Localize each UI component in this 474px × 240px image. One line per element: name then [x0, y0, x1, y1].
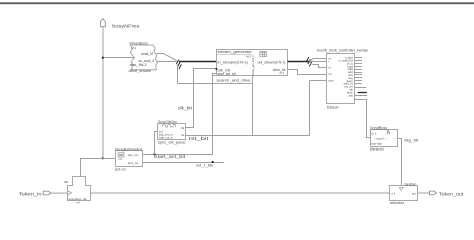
port busyNFree	[101, 19, 106, 27]
wire driver branch horizontal	[178, 83, 253, 85]
block releaser (Seqfac)	[390, 186, 418, 201]
svg-text:s.d: s.d	[118, 157, 122, 161]
svg-text:rst: rst	[181, 133, 184, 137]
svg-text:out_stream(0:N-1): out_stream(0:N-1)	[258, 61, 286, 65]
svg-text:M:1: M:1	[132, 46, 137, 50]
booth right pin stubs	[355, 58, 368, 96]
svg-text:M:1: M:1	[280, 71, 285, 75]
booth left pin labels	[328, 56, 334, 82]
svg-text:Btrack: Btrack	[327, 105, 339, 109]
svg-text:RE: RE	[64, 180, 68, 184]
wire rst_bit horizontal	[186, 135, 310, 137]
wire clk_bit	[186, 69, 217, 128]
svg-text:Token_out: Token_out	[439, 192, 465, 197]
block stream_generator	[217, 50, 288, 76]
wire vertical to rst net	[252, 84, 254, 136]
svg-text:Start_act_bit: Start_act_bit	[154, 154, 187, 159]
svg-text:sum: sum	[328, 79, 334, 83]
wire busy to SeqActivator	[103, 158, 116, 160]
icon clock triangle	[399, 187, 403, 190]
bus stub dash	[358, 92, 367, 94]
svg-text:M:1: M:1	[246, 55, 251, 59]
svg-text:clk: clk	[181, 126, 185, 130]
block SeqActivator	[116, 151, 143, 167]
wire start_act_bit	[143, 74, 217, 155]
svg-text:high_cnt_m: high_cnt_m	[159, 135, 174, 139]
wire act_1	[143, 162, 225, 164]
junction dot start_act	[153, 153, 155, 155]
svg-text:a 1: a 1	[391, 192, 395, 196]
icon table	[260, 51, 267, 57]
svg-text:in_stream(0:N-1): in_stream(0:N-1)	[218, 60, 249, 64]
junction dot busy/driver	[102, 57, 104, 59]
wire rst_bit stub to booth	[310, 80, 327, 82]
svg-text:act: act	[412, 192, 416, 196]
svg-text:act_1_Me: act_1_Me	[196, 163, 214, 168]
wire Driver out1 to rip	[157, 54, 177, 61]
port Token_out	[429, 191, 436, 195]
svg-text:→cycl→: →cycl→	[372, 136, 388, 140]
wire trig_bit	[398, 139, 402, 186]
svg-text:Seqfac: Seqfac	[404, 181, 416, 186]
svg-text:act_re: act_re	[128, 161, 139, 165]
svg-text:avail_M: avail_M	[141, 52, 153, 56]
wire rip branch 2	[310, 61, 326, 63]
wire FF to releaser	[91, 192, 390, 194]
title underline	[217, 54, 253, 56]
svg-text:SyncClkGen: SyncClkGen	[158, 120, 177, 124]
svg-text:act_on: act_on	[128, 153, 139, 157]
wire Driver out2 to rip	[157, 61, 177, 63]
svg-text:SeqActivator: SeqActivator	[115, 146, 143, 151]
svg-text:stream_generator: stream_generator	[218, 49, 253, 54]
svg-text:m 1: m 1	[372, 131, 377, 135]
booth right pin labels	[338, 56, 353, 98]
svg-text:search_and_drive: search_and_drive	[216, 78, 251, 83]
svg-text:busyNFree: busyNFree	[112, 23, 140, 28]
svg-text:condy: condy	[371, 142, 383, 146]
svg-text:booth_mult_controller_behav: booth_mult_controller_behav	[317, 48, 368, 52]
svg-text:stream_gen_inst_0: stream_gen_inst_0	[251, 55, 255, 76]
wire rip branch down	[177, 65, 179, 84]
bus rip slashes at Driver	[176, 60, 181, 69]
junction dot clk pin	[215, 68, 217, 70]
svg-text:drive_known: drive_known	[129, 69, 152, 73]
junction dot busy bottom	[102, 157, 104, 159]
bus rip slashes at booth	[306, 57, 312, 66]
wire rip branch 1	[310, 59, 327, 62]
wire busyNFree to Driver	[103, 57, 135, 59]
block booth_mult_controller_behav	[327, 54, 355, 104]
svg-text:ack: ack	[348, 93, 353, 97]
svg-text:CondBusy: CondBusy	[370, 125, 388, 130]
svg-text:rst_bit: rst_bit	[189, 136, 210, 141]
compartment search_and_drive	[213, 76, 253, 84]
bus stream to booth	[288, 61, 310, 63]
wire busy left branch	[81, 159, 103, 177]
wire busyNFree trunk	[102, 27, 104, 159]
icon squiggle	[387, 131, 390, 135]
block CondBusy	[371, 130, 398, 147]
block animation flip-flop	[68, 177, 91, 201]
svg-text:ans_fld:2: ans_fld:2	[130, 63, 148, 67]
wire rip branch 3	[310, 62, 327, 68]
icon waveform	[163, 125, 176, 128]
bus Driver to stream_generator	[179, 61, 216, 63]
wire rst_bit vertical	[309, 81, 311, 136]
block SyncClkGen	[158, 124, 186, 140]
svg-text:releaser: releaser	[390, 201, 405, 205]
wire Token_in	[51, 192, 68, 194]
wire branch to SyncClkGen	[155, 132, 158, 155]
svg-text:Token_in: Token_in	[19, 191, 42, 196]
svg-text:←: ←	[393, 137, 396, 141]
svg-text:trig_bit: trig_bit	[404, 138, 418, 142]
wire other_bit to booth	[288, 70, 327, 75]
svg-text:ref: ref	[77, 200, 80, 204]
svg-text:clk_bit: clk_bit	[178, 105, 193, 110]
wire booth to CondBusy	[355, 100, 371, 138]
icon clock triangle FF	[68, 191, 72, 195]
icon doc	[118, 153, 124, 157]
svg-text:st: st	[328, 66, 330, 70]
svg-text:rst: rst	[328, 72, 331, 76]
wire releaser out	[418, 192, 430, 194]
block Driver D1 (torn-edge fragment)	[130, 45, 157, 70]
junction dot act_1	[212, 161, 214, 163]
svg-text:act-on: act-on	[115, 167, 126, 171]
svg-text:sync_clk_pulse: sync_clk_pulse	[158, 140, 186, 144]
svg-text:detect: detect	[370, 147, 385, 152]
svg-text:r: r	[328, 60, 329, 64]
